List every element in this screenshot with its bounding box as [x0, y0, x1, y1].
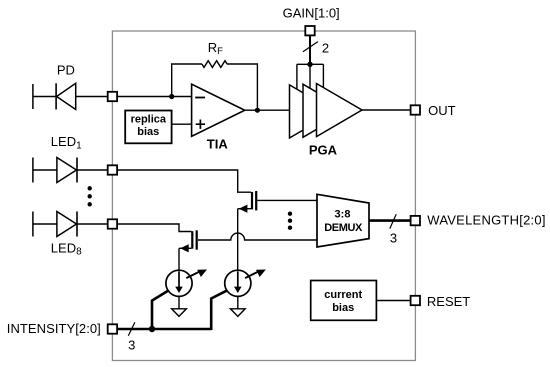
svg-text:WAVELENGTH[2:0]: WAVELENGTH[2:0]: [427, 213, 545, 228]
bus slash GAIN 2: [303, 42, 318, 52]
wire Q2 gate to DEMUX with hop: [198, 233, 317, 240]
wire Q2 source down to CS1: [178, 248, 180, 270]
svg-text:current: current: [324, 289, 362, 301]
amplifier PGA triangle 3: [317, 84, 363, 137]
bus slash INTENSITY 3: [128, 322, 135, 336]
wire GAIN splitter: [297, 64, 324, 89]
port PD: [108, 92, 117, 101]
svg-text:RESET: RESET: [427, 294, 470, 309]
node INTENSITY junction: [149, 326, 155, 332]
svg-text:replica: replica: [131, 114, 167, 126]
svg-text:PD: PD: [57, 62, 75, 77]
transistor Q1 channel: [251, 192, 253, 210]
port LED1: [108, 165, 117, 174]
port GAIN: [305, 26, 314, 35]
svg-text:3: 3: [390, 230, 397, 245]
wire TIA output: [245, 109, 290, 111]
transistor Q2 gate bar: [196, 230, 198, 249]
wire LED8 to Q2 drain: [117, 224, 191, 232]
port RESET: [411, 296, 420, 305]
wire PGA output: [362, 109, 410, 111]
wire Q1 gate to DEMUX: [257, 199, 317, 201]
demux 3:8 DEMUX: [317, 194, 369, 247]
bus slash WAVELENGTH 3: [390, 214, 396, 228]
current source I1: [166, 270, 192, 296]
svg-text:PGA: PGA: [309, 143, 338, 158]
svg-text:bias: bias: [332, 302, 354, 314]
bus INTENSITY: [117, 290, 227, 330]
dots LED ellipsis: [88, 186, 92, 190]
svg-text:bias: bias: [137, 126, 159, 138]
transistor Q1 gate bar: [255, 191, 257, 210]
wire LED1 to Q1 drain: [117, 170, 251, 192]
amplifier PGA triangle 1: [290, 85, 336, 138]
ground below I1: [178, 296, 180, 309]
transistor Q2 channel: [191, 231, 193, 249]
node feedback junction: [169, 94, 174, 99]
port OUT: [411, 105, 420, 114]
current source I2: [225, 270, 251, 296]
svg-text:3:8: 3:8: [335, 208, 351, 220]
LED LED8: [33, 212, 108, 237]
wire DEMUX to WAVELENGTH port: [369, 219, 410, 222]
svg-text:GAIN[1:0]: GAIN[1:0]: [283, 5, 340, 20]
amplifier PGA triangle 2: [303, 84, 349, 137]
wire replica bias to op-amp: [172, 123, 192, 125]
photodiode PD: [33, 83, 108, 109]
port WAVELENGTH: [411, 216, 420, 225]
node GAIN junction: [307, 62, 312, 67]
svg-text:DEMUX: DEMUX: [324, 222, 363, 234]
box current bias: [311, 281, 377, 321]
node TIA output junction: [255, 108, 260, 113]
svg-text:TIA: TIA: [207, 136, 229, 151]
dots DEMUX input ellipsis: [288, 212, 292, 216]
transistor Q2 source with arrow: [179, 247, 191, 249]
transistor Q1 source with arrow: [238, 208, 251, 210]
resistor RF: [202, 61, 227, 68]
svg-text:2: 2: [322, 40, 329, 55]
wire PD net input: [117, 96, 192, 98]
chip boundary box: [112, 31, 415, 361]
svg-text:INTENSITY[2:0]: INTENSITY[2:0]: [7, 321, 101, 336]
svg-text:OUT: OUT: [428, 103, 456, 118]
op-amp U1 TIA: [192, 84, 245, 136]
LED LED1: [33, 158, 108, 183]
wire current bias to RESET port: [376, 300, 410, 302]
wire GAIN drop: [309, 35, 311, 64]
box replica bias: [125, 111, 171, 144]
wire feedback loop: [172, 64, 258, 110]
port INTENSITY: [108, 324, 117, 333]
ground below I2: [237, 296, 239, 309]
wire Q1 source down to CS2: [237, 209, 239, 271]
svg-text:3: 3: [128, 337, 135, 352]
port LED8: [108, 219, 117, 228]
